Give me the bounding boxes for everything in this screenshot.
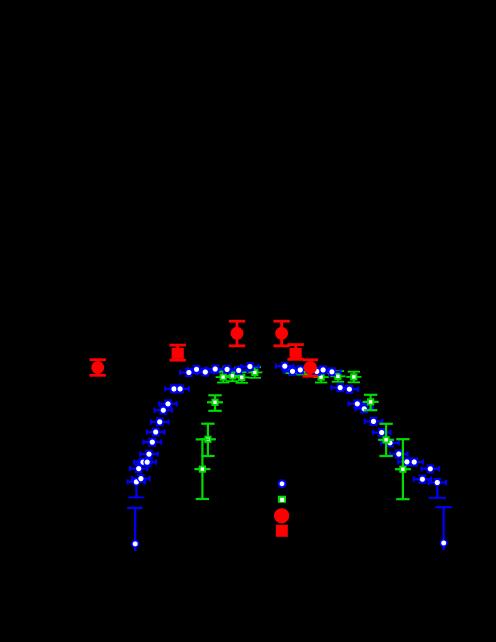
green square behind blue, point H4 xyxy=(325,368,338,375)
blue data point 30 error bars xyxy=(348,399,368,408)
green central data point 6 xyxy=(330,370,345,382)
green central data point 1 xyxy=(216,371,231,383)
blue data point 31 marker xyxy=(360,405,368,413)
green outer data point 3 xyxy=(194,438,210,500)
red circle point 1 xyxy=(90,358,106,376)
blue data point 26 error bars xyxy=(313,365,333,374)
blue data point 7 marker xyxy=(145,450,153,458)
blue data point 24 error bars xyxy=(291,365,311,374)
blue data point 41 long error bar xyxy=(435,506,451,550)
green central data point 2 xyxy=(225,370,240,382)
blue data point 29 error bars xyxy=(340,385,360,394)
blue data point 37 marker xyxy=(410,458,418,466)
legend blue circle marker xyxy=(278,479,287,488)
blue data point 21 marker xyxy=(246,363,254,371)
blue data point 40 error bars xyxy=(428,478,448,499)
blue data point 28 marker xyxy=(336,384,344,392)
blue data point 31 error bars xyxy=(354,404,374,413)
blue data point 4 marker xyxy=(137,475,145,483)
blue data point 22 marker xyxy=(281,362,289,370)
green outer data point 5 xyxy=(378,423,394,457)
blue data point 18 error bars xyxy=(205,365,225,374)
blue data point 37 error bars xyxy=(404,458,424,467)
blue data point 13 marker xyxy=(170,385,178,393)
green square behind blue, point H1 xyxy=(220,366,233,373)
blue data point 27 error bars xyxy=(322,367,342,376)
blue data point 10 error bars xyxy=(150,417,170,426)
green square behind blue, point H2 xyxy=(232,367,245,374)
green central data point 5 xyxy=(314,371,329,383)
blue data point 4 error bars xyxy=(131,474,151,483)
legend green square marker xyxy=(278,496,286,503)
blue data point 9 error bars xyxy=(146,428,166,437)
red circle point 4 xyxy=(303,358,319,377)
blue data point 5 marker xyxy=(139,458,147,466)
blue data point 36 error bars xyxy=(397,457,417,466)
green square behind blue, point H5 xyxy=(286,368,299,375)
blue data point 12 marker xyxy=(164,400,172,408)
blue data point 13 error bars xyxy=(164,384,184,393)
green outer data point 6 xyxy=(395,438,411,500)
blue data point 16 error bars xyxy=(187,365,207,374)
green square behind blue, point H3 xyxy=(296,367,309,376)
blue data point 11 marker xyxy=(159,406,167,414)
blue data point 32 marker xyxy=(370,418,378,426)
blue data point 19 marker xyxy=(223,366,231,374)
blue data point 14 error bars xyxy=(170,384,190,393)
red circle point 3 xyxy=(273,320,289,347)
blue data point 38 error bars xyxy=(413,475,433,484)
green outer data point 1 xyxy=(207,394,223,412)
legend red square marker xyxy=(276,525,288,537)
blue data point 8 marker xyxy=(148,438,156,446)
blue data point 2 marker xyxy=(133,478,141,486)
blue data point 21 error bars xyxy=(240,362,260,371)
blue data point 15 error bars xyxy=(179,368,199,377)
blue data point 25 error bars xyxy=(307,367,327,376)
blue data point 17 error bars xyxy=(196,368,216,377)
blue data point 3 marker xyxy=(135,465,143,473)
blue data point 34 error bars xyxy=(380,438,400,447)
blue data point 36 marker xyxy=(403,458,411,466)
blue data point 26 marker xyxy=(319,366,327,374)
blue data point 30 marker xyxy=(353,400,361,408)
blue data point 16 marker xyxy=(193,365,201,373)
blue data point 23 error bars xyxy=(283,367,303,376)
blue data point 23 marker xyxy=(289,367,297,375)
blue data point 20 error bars xyxy=(229,366,249,375)
blue data point 35 error bars xyxy=(389,450,409,459)
blue data point 5 error bars xyxy=(133,458,153,467)
blue data point 25 marker xyxy=(313,368,321,376)
green outer data point 4 xyxy=(363,394,379,412)
blue data point 19 error bars xyxy=(217,365,237,374)
blue data point 29 marker xyxy=(346,385,354,393)
blue data point 6 marker xyxy=(143,458,151,466)
green outer data point 2 xyxy=(200,423,216,458)
blue data point 1 marker xyxy=(131,540,139,548)
blue data point 15 marker xyxy=(185,369,193,377)
blue data point 40 marker xyxy=(433,479,441,487)
blue data point 39 marker xyxy=(426,465,434,473)
blue data point 39 error bars xyxy=(421,464,441,473)
blue data point 28 error bars xyxy=(330,383,350,392)
blue data point 8 error bars xyxy=(143,438,163,447)
blue data point 33 error bars xyxy=(372,428,392,437)
blue data point 38 marker xyxy=(419,475,427,483)
blue data point 24 marker xyxy=(296,366,304,374)
blue data point 22 error bars xyxy=(275,362,295,371)
blue data point 6 error bars xyxy=(137,458,157,467)
green central data point 3 xyxy=(234,371,249,383)
legend red circle marker xyxy=(274,508,289,523)
green central data point 7 xyxy=(346,371,361,383)
blue data point 35 marker xyxy=(395,450,403,458)
blue data point 10 marker xyxy=(156,418,164,426)
blue data point 7 error bars xyxy=(139,450,159,459)
blue data point 33 marker xyxy=(378,429,386,437)
blue data point 20 marker xyxy=(235,367,243,375)
blue data point 9 marker xyxy=(152,428,160,436)
blue data point 27 marker xyxy=(328,368,336,376)
blue data point 3 error bars xyxy=(129,464,149,473)
blue data point 2 error bars xyxy=(127,477,147,498)
blue data point 32 error bars xyxy=(364,417,384,426)
blue data point 11 error bars xyxy=(154,406,174,415)
red square point 1 xyxy=(170,344,186,362)
blue data point 34 marker xyxy=(386,439,394,447)
blue data point 17 marker xyxy=(201,368,209,376)
green central data point 4 xyxy=(247,366,262,378)
blue data point 1 long error bar xyxy=(127,507,143,551)
blue data point 14 marker xyxy=(176,385,184,393)
blue data point 18 marker xyxy=(211,365,219,373)
blue data point 12 error bars xyxy=(158,399,178,408)
red circle point 2 xyxy=(229,320,245,347)
blue data point 41 marker xyxy=(440,539,448,547)
red square point 2 xyxy=(287,343,303,360)
